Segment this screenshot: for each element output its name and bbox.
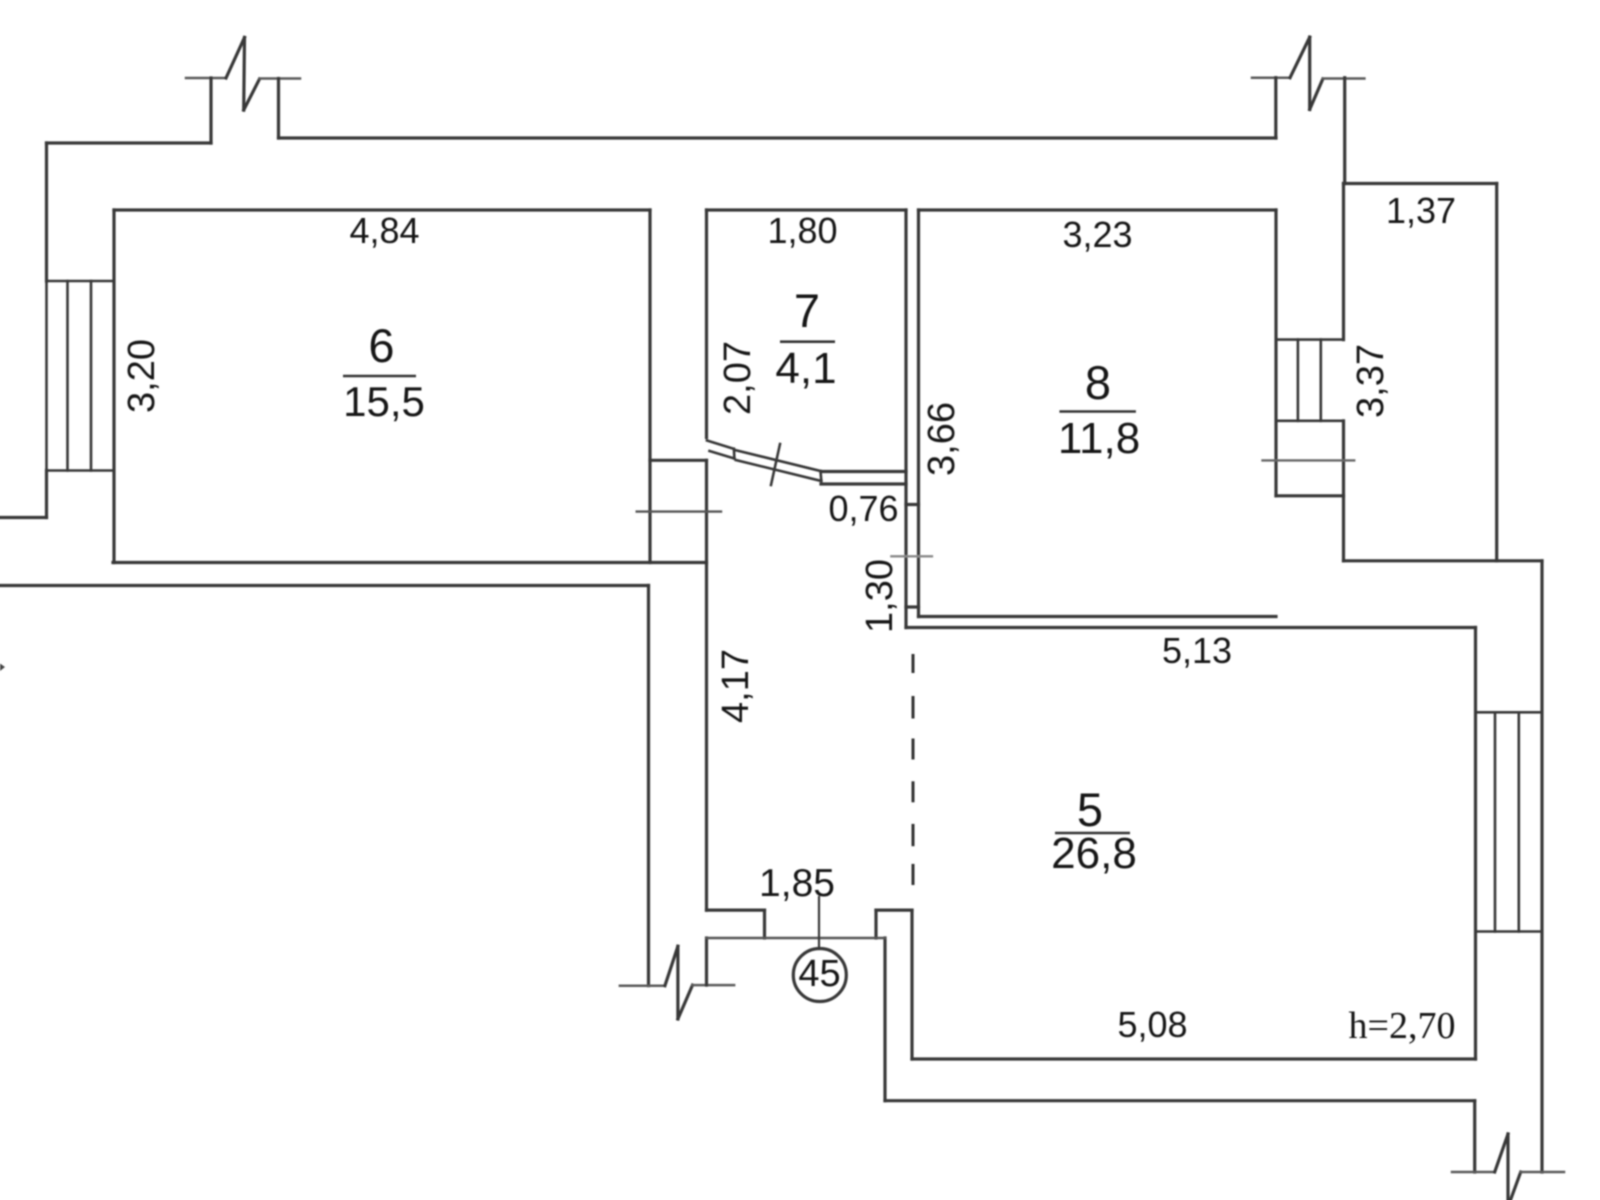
- svg-text:h=2,70: h=2,70: [1349, 1005, 1456, 1047]
- svg-text:3,23: 3,23: [1062, 214, 1132, 255]
- wall room 6 right: [648, 210, 651, 563]
- dimension tick corridor/room6: [637, 510, 721, 512]
- wall balcony bottom: [1344, 559, 1543, 562]
- wall exterior left below window: [45, 471, 48, 518]
- unit circle 45: [793, 949, 846, 1002]
- svg-text:1,30: 1,30: [859, 559, 901, 633]
- svg-text:2,07: 2,07: [717, 341, 759, 415]
- dimension tick 3,37: [1263, 459, 1355, 461]
- wall below window W2: [1276, 494, 1344, 497]
- wall room 7 top: [707, 208, 907, 211]
- wall exterior bottom: [885, 1099, 1475, 1102]
- door D1 room 7: [707, 441, 821, 486]
- fraction bar room 8: [1059, 410, 1136, 413]
- wall room 8 right: [1274, 210, 1277, 496]
- wall room 5 left: [910, 910, 913, 1059]
- fraction bar room 6: [343, 375, 416, 378]
- wall break symbol bottom-left: [620, 946, 734, 1019]
- wall room 8 top: [919, 208, 1277, 211]
- wall exterior top-left: [47, 141, 212, 144]
- svg-text:7: 7: [794, 284, 820, 337]
- wall balcony left lower: [1342, 421, 1345, 561]
- svg-text:15,5: 15,5: [343, 378, 425, 425]
- wall room 6 bottom: [113, 561, 707, 564]
- wall break symbol bottom-right: [1452, 1134, 1564, 1200]
- window W3 room 5 right: [1476, 712, 1543, 931]
- wall room 6 left: [112, 210, 115, 563]
- wall room 5 bottom: [912, 1057, 1476, 1060]
- wall room 5 top: [906, 626, 1476, 629]
- fraction bar room 7: [780, 340, 835, 343]
- wall tick room7/8 upper: [906, 503, 919, 506]
- entrance threshold: [707, 937, 886, 939]
- wall room 5 right: [1474, 628, 1477, 1060]
- svg-text:5,08: 5,08: [1117, 1004, 1187, 1045]
- leader line unit 45: [818, 897, 820, 949]
- svg-text:0,76: 0,76: [828, 488, 898, 529]
- wall jog room6/7: [650, 459, 707, 462]
- wall tick room7/8 lower: [906, 605, 919, 608]
- wall room 6 top: [114, 208, 650, 211]
- svg-text:11,8: 11,8: [1058, 414, 1140, 463]
- wall entrance jamb left: [707, 908, 765, 911]
- dimension tick 1,30: [891, 555, 932, 557]
- wall break symbol top-right: [1252, 37, 1364, 183]
- wall room 8 bottom: [919, 615, 1277, 618]
- svg-text:1,85: 1,85: [759, 862, 835, 905]
- wall room 7 left: [705, 210, 708, 438]
- svg-text:1,80: 1,80: [767, 210, 837, 251]
- svg-text:4,1: 4,1: [775, 344, 836, 393]
- wall balcony top: [1344, 182, 1497, 185]
- window W2 room 8 right: [1276, 340, 1344, 421]
- wall exterior lower-left: [0, 584, 649, 587]
- svg-text:1,37: 1,37: [1386, 190, 1456, 231]
- window W1 room 6 left: [47, 281, 115, 471]
- svg-text:4,84: 4,84: [349, 210, 419, 251]
- wall room 8 left: [917, 210, 920, 617]
- wall balcony left upper: [1342, 184, 1345, 340]
- wall corridor left: [705, 460, 708, 910]
- wall corridor left below threshold: [705, 938, 708, 985]
- wall exterior below entrance: [883, 938, 886, 1101]
- wall room 7 right / corridor right: [904, 210, 907, 628]
- dashed partition room 5: [912, 656, 915, 884]
- wall exterior left: [45, 143, 48, 281]
- svg-text:3,66: 3,66: [921, 402, 963, 476]
- svg-text:3,37: 3,37: [1350, 344, 1392, 418]
- wall exterior right outer: [1540, 561, 1543, 1172]
- wall break symbol top-left: [186, 38, 300, 144]
- wall corridor exterior left vertical: [647, 586, 650, 986]
- svg-text:26,8: 26,8: [1051, 829, 1137, 878]
- wall exterior top (rooms 6-7-8): [279, 136, 1277, 139]
- wall exterior bottom-right vertical: [1473, 1101, 1476, 1172]
- svg-text:3,20: 3,20: [121, 339, 163, 413]
- edge mark left: [0, 664, 5, 672]
- wall entrance jamb right: [876, 908, 912, 911]
- svg-text:5,13: 5,13: [1162, 630, 1232, 671]
- wall niche 0,76: [821, 470, 906, 473]
- svg-text:6: 6: [368, 319, 394, 372]
- wall step left edge: [0, 516, 47, 519]
- svg-text:4,17: 4,17: [715, 649, 757, 723]
- svg-text:45: 45: [798, 953, 840, 995]
- wall balcony right: [1495, 184, 1498, 561]
- svg-text:8: 8: [1085, 356, 1111, 409]
- fraction bar room 5: [1055, 832, 1130, 835]
